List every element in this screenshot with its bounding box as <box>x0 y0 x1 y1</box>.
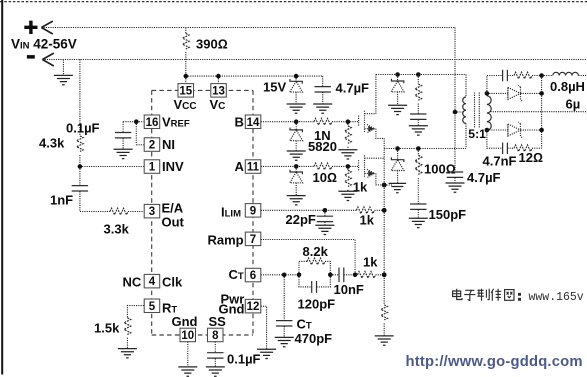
svg-text:5: 5 <box>149 301 156 313</box>
junction dot secondary bottom <box>485 128 490 133</box>
svg-text:E/A: E/A <box>162 200 184 215</box>
resistor pulldown Q2 1k <box>345 166 368 194</box>
label NC <box>123 275 142 290</box>
ground sense <box>375 336 394 345</box>
resistor 390ohm <box>183 34 228 52</box>
wire minus rail <box>42 59 587 61</box>
node VIN- label <box>27 55 35 59</box>
svg-text:3.3k: 3.3k <box>104 222 130 237</box>
junction dot RC right <box>328 273 333 278</box>
ground SS <box>206 367 225 376</box>
wire gate drive B <box>261 121 359 123</box>
arrow input minus <box>42 53 53 66</box>
svg-text:5:1: 5:1 <box>468 127 486 141</box>
ground 1.5k <box>118 349 137 358</box>
svg-text:NI: NI <box>162 137 175 152</box>
pin 6 <box>245 268 260 282</box>
svg-text:3: 3 <box>149 206 155 218</box>
junction dot diode top <box>539 91 544 96</box>
transistor Q1 upper MOSFET <box>359 111 376 133</box>
capacitor SS 0.1uF <box>207 342 260 367</box>
pin 12 label Pwr Gnd <box>219 291 245 316</box>
ground pin12 <box>257 349 276 358</box>
ground Q2 source <box>384 183 406 192</box>
svg-text:4.3k: 4.3k <box>39 136 65 151</box>
pin 1 label INV <box>162 159 184 174</box>
capacitor 150pF <box>410 204 466 222</box>
svg-text:0.8µH: 0.8µH <box>550 79 585 94</box>
ground D2 <box>287 196 306 205</box>
svg-text:4: 4 <box>149 276 156 288</box>
svg-text:12Ω: 12Ω <box>519 150 543 165</box>
svg-text:NC: NC <box>123 275 142 290</box>
diode D1 1N5820 <box>290 122 303 151</box>
svg-text:15V: 15V <box>263 80 286 95</box>
watermark www.165 text <box>529 291 584 304</box>
pin 14 label B <box>235 115 244 130</box>
capacitor 22pF <box>286 210 334 227</box>
ground clamp upper <box>388 105 407 114</box>
svg-text:B: B <box>235 115 244 130</box>
svg-text:SS: SS <box>209 314 227 329</box>
svg-text:470pF: 470pF <box>295 331 333 346</box>
zener D5 15V <box>263 76 303 104</box>
junction dot Q2 source <box>382 183 387 188</box>
resistor snubber top <box>514 72 542 79</box>
label VIN 42-56V <box>11 36 77 51</box>
junction dot ILIM sense <box>382 208 387 213</box>
ground pulldown Q2 <box>338 191 357 200</box>
svg-text:5820: 5820 <box>308 139 337 154</box>
junction dot ramp sense <box>382 272 387 277</box>
label 6u <box>566 97 581 112</box>
svg-text:22pF: 22pF <box>286 212 316 227</box>
capacitor 4.7nF snubber <box>483 142 517 168</box>
svg-text:http://www.go-gddq.com: http://www.go-gddq.com <box>406 354 583 370</box>
pin 15 <box>178 84 194 98</box>
label 0.8uH <box>550 79 585 94</box>
svg-text:390Ω: 390Ω <box>196 37 228 52</box>
ground input <box>54 60 73 85</box>
junction dot secondary top <box>485 91 490 96</box>
svg-text:8.2k: 8.2k <box>303 244 329 259</box>
diode clamp upper rail <box>391 75 404 105</box>
ground pin10 <box>178 367 197 376</box>
wire snubber top branch <box>487 76 502 94</box>
capacitor 0.1uF VREF <box>66 121 131 149</box>
wire INV node <box>80 155 144 167</box>
ground 150pF <box>409 218 428 227</box>
diode D2 1N5820 <box>290 166 303 195</box>
pin 7 <box>245 232 260 246</box>
pin 11 label A <box>235 159 245 174</box>
transformer T1 core <box>475 93 480 128</box>
pin 4 <box>144 274 160 288</box>
wire Q1 source <box>376 129 384 139</box>
wire CT row <box>261 274 299 276</box>
junction dot CT cap <box>282 273 287 278</box>
label 1N 5820 <box>308 128 337 154</box>
wire secondary center tap out <box>491 111 587 113</box>
diode rectifier bottom <box>487 122 542 138</box>
svg-text:1.5k: 1.5k <box>94 321 120 336</box>
svg-text:0.1µF: 0.1µF <box>227 352 261 367</box>
capacitor 10nF <box>330 267 364 297</box>
pin 11 <box>245 160 260 174</box>
arrow input plus <box>41 21 52 34</box>
capacitor snubber top <box>503 70 514 82</box>
wire output right vertical <box>541 76 543 149</box>
pin 9 label ILIM <box>221 205 241 220</box>
junction dot A clamp <box>294 164 299 169</box>
pin 2 <box>144 138 160 152</box>
pin 12 <box>245 299 260 313</box>
pin 10 <box>180 328 196 342</box>
ground 470pF <box>275 337 294 346</box>
junction dot gate Q2 <box>346 164 351 169</box>
svg-text:Clk: Clk <box>162 275 183 290</box>
ground zener15V <box>287 104 306 113</box>
junction dot VREF <box>134 119 139 124</box>
svg-text:1k: 1k <box>363 255 378 270</box>
junction dot Vc13 <box>216 74 221 79</box>
junction dot zener15V <box>294 74 299 79</box>
junction dot diode bottom <box>539 128 544 133</box>
watermark chinese site text <box>453 289 521 301</box>
pin 6 label CT <box>229 267 244 282</box>
resistor snubber upper <box>415 75 422 114</box>
frame borders <box>0 1 587 3</box>
pin 9 <box>245 204 260 218</box>
pin 3 <box>144 204 160 218</box>
svg-text:Gnd: Gnd <box>172 314 198 329</box>
resistor 100ohm <box>415 149 456 204</box>
pin 8 <box>208 328 224 342</box>
wire Q2 source <box>376 173 384 185</box>
svg-text:120pF: 120pF <box>298 297 336 312</box>
svg-text:4.7µF: 4.7µF <box>467 170 501 185</box>
resistor 4.3k <box>39 136 83 152</box>
svg-text:7: 7 <box>250 234 256 246</box>
junction dot out top <box>539 73 544 78</box>
pin 5 <box>144 299 160 313</box>
junction dot gate Q1 <box>346 119 351 124</box>
wire pin10 ground <box>187 342 189 367</box>
wire center tap feed <box>455 28 463 172</box>
resistor 1.5k RT <box>94 306 144 349</box>
node VIN+ label <box>24 21 37 34</box>
resistor 10ohm gate A <box>313 163 337 185</box>
pin 16 <box>144 115 160 129</box>
svg-text:100Ω: 100Ω <box>424 162 456 177</box>
ground D1 <box>287 151 306 160</box>
svg-text:15: 15 <box>179 86 192 98</box>
ground pulldown Q1 <box>338 150 357 159</box>
svg-text:13: 13 <box>212 86 225 98</box>
wire pin12 ground <box>261 306 267 349</box>
svg-text:1k: 1k <box>353 179 368 194</box>
junction dot rail-low diode <box>395 146 400 151</box>
junction dot Vcc15 <box>184 74 189 79</box>
transformer T1 secondary <box>487 93 491 130</box>
pin 8 label SS <box>209 314 227 329</box>
junction dot B clamp <box>294 119 299 124</box>
resistor pulldown Q1 <box>345 122 352 150</box>
svg-text:4.7nF: 4.7nF <box>483 154 517 169</box>
junction dot rail-up diode <box>395 72 400 77</box>
svg-text:12: 12 <box>247 301 260 313</box>
wire mid rail lower <box>384 148 466 150</box>
pin 13 <box>211 84 227 98</box>
wire Vcc rail <box>186 76 323 84</box>
svg-text:1: 1 <box>149 162 156 174</box>
svg-text:A: A <box>235 159 245 174</box>
junction dot RC left <box>297 273 302 278</box>
resistor 3.3k <box>104 208 144 236</box>
svg-text:6µ: 6µ <box>566 97 581 112</box>
svg-text:11: 11 <box>247 162 260 174</box>
svg-text:10Ω: 10Ω <box>313 170 337 185</box>
pin 3 label E/A Out <box>162 200 185 229</box>
capacitor C_vcc 4.7uF <box>315 76 370 104</box>
resistor 1k ramp <box>355 255 384 279</box>
wire snubber bottom branch <box>487 130 502 148</box>
svg-text:6: 6 <box>250 270 256 282</box>
label 5:1 <box>468 127 486 141</box>
resistor 12ohm snubber <box>514 145 543 165</box>
pin 15 label Vcc <box>174 97 197 112</box>
junction dot 22pF <box>323 208 328 213</box>
resistor 8.2k <box>299 244 330 275</box>
wire plus rail <box>41 27 455 29</box>
junction dot rail-low snubber <box>416 146 421 151</box>
pin 10 label Gnd <box>172 314 198 329</box>
svg-text:14: 14 <box>247 117 260 129</box>
ground C_vcc <box>313 104 332 113</box>
resistor sense <box>381 305 388 336</box>
junction dot ramp node <box>353 273 358 278</box>
wire ILIM row <box>261 209 384 211</box>
wire source-sense vertical <box>383 138 385 305</box>
capacitor 120pF <box>298 275 336 312</box>
wire feedback branch <box>79 60 81 137</box>
svg-text:Ramp: Ramp <box>208 233 244 248</box>
pin 2 label NI <box>162 137 175 152</box>
pin 14 <box>245 115 260 129</box>
wire gate drive A <box>261 165 359 167</box>
junction dot center tap <box>453 110 458 115</box>
svg-text:16: 16 <box>146 117 159 129</box>
pin 5 label RT <box>162 300 177 315</box>
svg-text:1k: 1k <box>360 213 375 228</box>
wire Ramp pin7 <box>261 240 355 275</box>
watermark url text <box>406 354 583 370</box>
svg-text:10: 10 <box>181 330 194 342</box>
svg-text:8: 8 <box>212 330 219 342</box>
svg-text:INV: INV <box>162 159 184 174</box>
wire 390 feed <box>185 28 187 77</box>
ground 4.7uF center <box>446 183 465 192</box>
junction dot rail-up snubber <box>416 72 421 77</box>
svg-text:1nF: 1nF <box>50 193 73 208</box>
junction dot INV <box>78 164 83 169</box>
svg-text:4.7µF: 4.7µF <box>336 81 370 96</box>
resistor gate B <box>314 118 332 125</box>
wire drain rail upper <box>376 74 466 76</box>
transistor Q2 lower MOSFET <box>359 155 385 177</box>
wire VREF node <box>123 122 144 145</box>
diode rectifier top <box>487 85 542 101</box>
svg-text:www.165v: www.165v <box>529 291 584 304</box>
pin 4 label Clk <box>162 275 183 290</box>
pin 13 label Vc <box>210 97 226 112</box>
wire Q1 drain <box>375 75 377 114</box>
svg-text:9: 9 <box>250 205 256 217</box>
pin 16 label VREF <box>162 115 190 130</box>
diode clamp lower rail <box>391 149 404 184</box>
resistor 1k ILIM <box>356 207 374 228</box>
svg-text:Out: Out <box>162 215 185 230</box>
svg-text:0.1µF: 0.1µF <box>66 121 100 136</box>
svg-text:10nF: 10nF <box>334 282 364 297</box>
capacitor snubber upper <box>410 114 426 125</box>
pin 7 label Ramp <box>208 233 244 248</box>
inductor 0.8uH <box>542 72 587 75</box>
svg-text:150pF: 150pF <box>429 207 467 222</box>
ground 22pF <box>315 225 334 234</box>
capacitor CT 470pF <box>276 275 332 346</box>
ground C_vref <box>114 149 133 158</box>
capacitor 1nF <box>50 167 110 212</box>
transformer T1 primary <box>463 75 466 149</box>
op-amp U1 PWM controller dashed outline <box>152 90 253 335</box>
capacitor 4.7uF center <box>447 170 501 185</box>
pin 1 <box>144 160 160 174</box>
ground snubber upper <box>409 126 428 135</box>
svg-text:2: 2 <box>149 140 155 152</box>
